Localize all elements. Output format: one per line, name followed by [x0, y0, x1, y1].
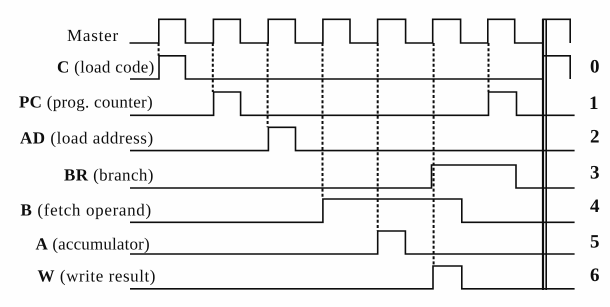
wire dashed marker clock edge 7 to PC: [488, 43, 490, 92]
svg-text:BR (branch): BR (branch): [64, 166, 154, 185]
wire dashed marker clock edge 3 to AD: [267, 43, 269, 127]
svg-text:6: 6: [590, 265, 600, 286]
wire A accumulator waveform: [130, 231, 575, 254]
svg-text:5: 5: [590, 232, 600, 253]
svg-text:W (write result): W (write result): [38, 267, 156, 286]
wire dashed marker clock edge 1 to C: [158, 43, 160, 56]
wire C load-code waveform: [130, 56, 570, 79]
wire dashed marker clock edge 6 to W: [433, 43, 435, 266]
wire B fetch-operand waveform: [130, 199, 575, 222]
svg-text:1: 1: [589, 93, 599, 114]
svg-text:B (fetch operand): B (fetch operand): [21, 201, 152, 220]
wire dashed marker clock edge 4 to B: [322, 43, 324, 199]
svg-text:Master: Master: [67, 26, 119, 45]
wire Master clock waveform: [130, 19, 571, 43]
wire BR branch waveform: [130, 165, 575, 188]
svg-text:PC (prog. counter): PC (prog. counter): [19, 93, 153, 112]
svg-text:3: 3: [590, 163, 600, 184]
wire PC prog-counter waveform: [130, 92, 575, 115]
node cycle-boundary double line: [543, 19, 546, 290]
svg-text:C (load code): C (load code): [57, 58, 155, 77]
svg-text:AD (load address): AD (load address): [20, 129, 154, 148]
wire AD load-address waveform: [130, 127, 575, 150]
svg-text:4: 4: [590, 196, 600, 217]
svg-text:2: 2: [590, 127, 600, 148]
wire W write-result waveform: [130, 266, 575, 289]
svg-text:A (accumulator): A (accumulator): [36, 235, 150, 254]
wire dashed marker clock edge 5 to A: [377, 43, 379, 231]
wire dashed marker clock edge 2 to PC: [212, 43, 214, 92]
svg-text:0: 0: [590, 57, 600, 78]
